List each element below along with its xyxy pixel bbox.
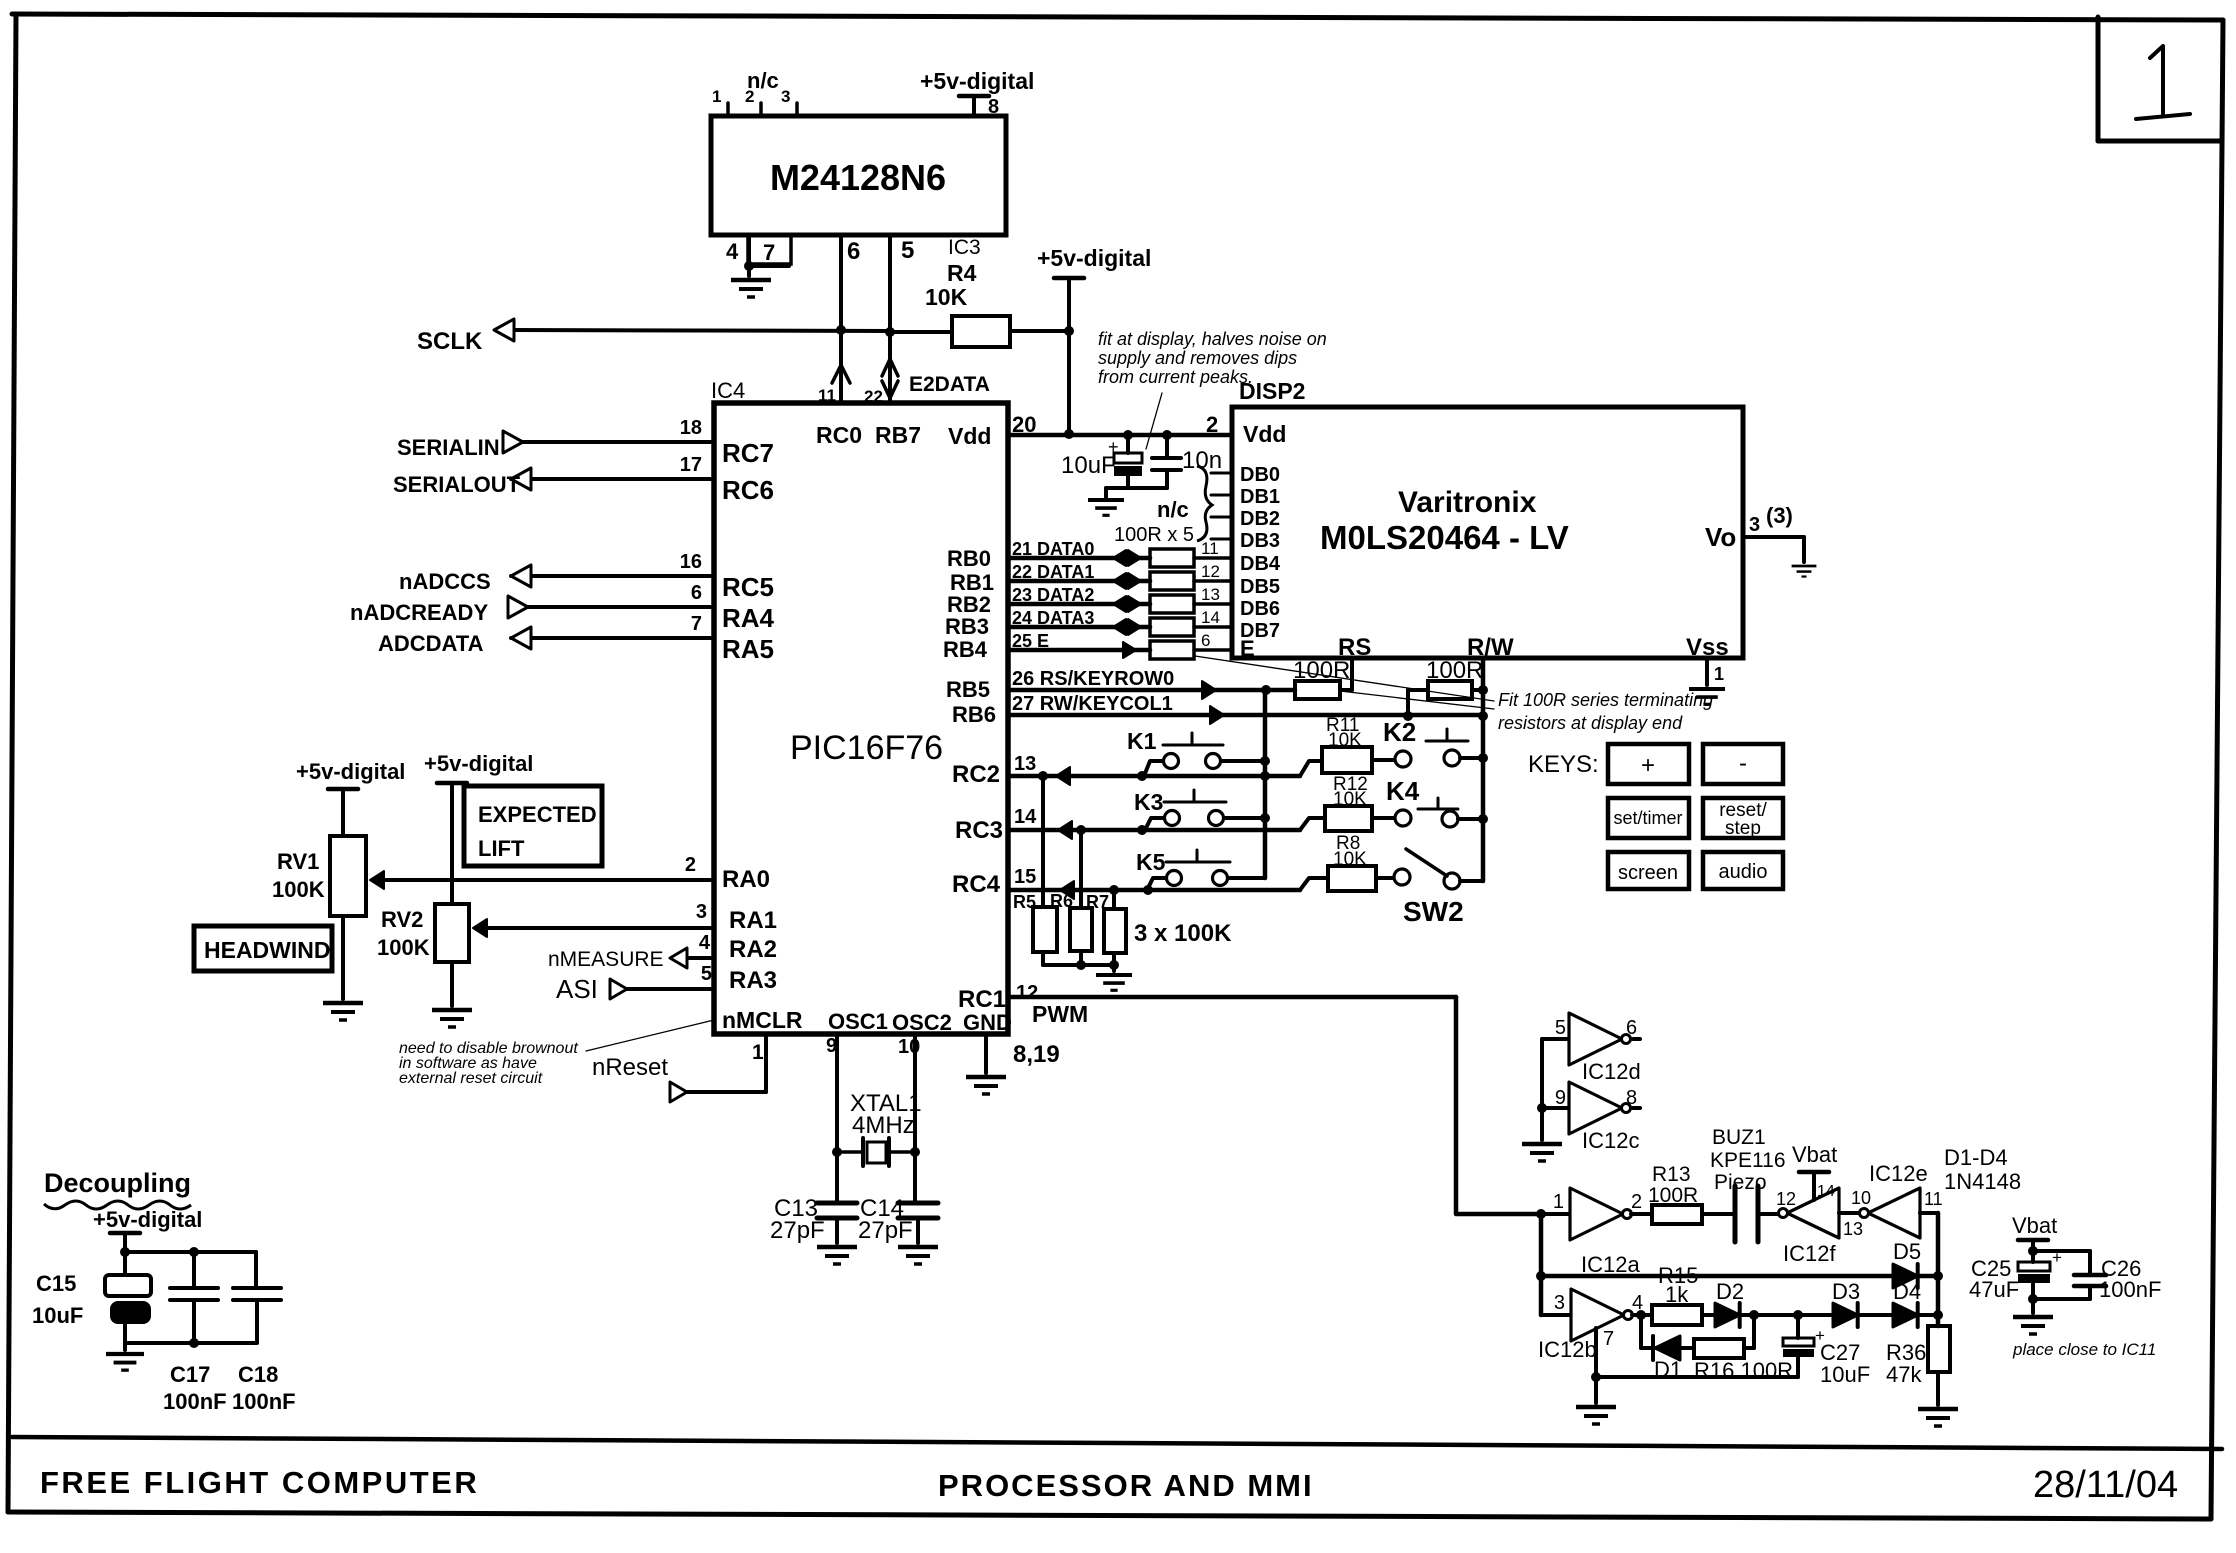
svg-text:2: 2	[1631, 1191, 1642, 1213]
svg-text:100nF: 100nF	[163, 1389, 227, 1414]
svg-text:RA0: RA0	[722, 866, 770, 893]
svg-text:13: 13	[1843, 1219, 1863, 1239]
svg-text:n/c: n/c	[1157, 497, 1189, 522]
svg-text:RC2: RC2	[952, 761, 1000, 788]
svg-text:+: +	[2052, 1248, 2062, 1267]
svg-text:nADCCS: nADCCS	[399, 569, 491, 594]
svg-text:47uF: 47uF	[1969, 1277, 2019, 1302]
svg-text:RV1: RV1	[277, 849, 319, 874]
svg-text:10K: 10K	[925, 284, 968, 310]
svg-text:DB2: DB2	[1240, 508, 1280, 530]
svg-text:8: 8	[988, 96, 999, 118]
svg-text:screen: screen	[1618, 862, 1678, 884]
svg-text:100R: 100R	[1426, 657, 1483, 684]
svg-text:K3: K3	[1134, 789, 1163, 815]
svg-text:OSC2: OSC2	[892, 1010, 952, 1035]
svg-text:PROCESSOR AND MMI: PROCESSOR AND MMI	[938, 1468, 1314, 1503]
svg-text:11: 11	[1201, 539, 1219, 558]
svg-text:C15: C15	[36, 1271, 76, 1296]
svg-text:RB3: RB3	[945, 614, 989, 639]
svg-text:Decoupling: Decoupling	[44, 1168, 191, 1198]
svg-text:23 DATA2: 23 DATA2	[1012, 585, 1094, 605]
svg-text:KEYS:: KEYS:	[1528, 751, 1599, 778]
svg-text:RA4: RA4	[722, 603, 775, 633]
svg-text:external reset circuit: external reset circuit	[399, 1070, 543, 1087]
svg-text:4: 4	[726, 239, 739, 264]
svg-text:10: 10	[898, 1036, 920, 1058]
svg-text:HEADWIND: HEADWIND	[204, 937, 331, 963]
svg-text:18: 18	[680, 417, 702, 439]
svg-text:5: 5	[901, 237, 914, 264]
svg-text:10K: 10K	[1333, 789, 1367, 810]
svg-text:GND: GND	[963, 1010, 1012, 1035]
svg-text:nMEASURE: nMEASURE	[548, 948, 664, 971]
svg-text:15: 15	[1014, 866, 1036, 888]
svg-text:100R: 100R	[1293, 657, 1350, 684]
svg-text:11: 11	[1924, 1189, 1943, 1209]
svg-text:100K: 100K	[377, 935, 430, 960]
svg-text:IC4: IC4	[711, 378, 745, 403]
svg-text:C17: C17	[170, 1362, 210, 1387]
svg-text:SERIALOUT: SERIALOUT	[393, 472, 521, 497]
svg-text:27pF: 27pF	[770, 1217, 825, 1244]
svg-text:1: 1	[1714, 664, 1724, 684]
svg-text:-: -	[1739, 750, 1747, 777]
svg-text:Vbat: Vbat	[1792, 1142, 1837, 1167]
svg-text:3: 3	[696, 901, 707, 923]
svg-text:7: 7	[1603, 1328, 1614, 1350]
svg-text:DISP2: DISP2	[1239, 378, 1305, 404]
svg-text:Piezo: Piezo	[1714, 1171, 1767, 1194]
svg-text:E: E	[1240, 636, 1255, 661]
svg-text:RA2: RA2	[729, 936, 777, 963]
svg-text:K4: K4	[1386, 776, 1420, 806]
svg-text:+: +	[1641, 752, 1655, 779]
svg-text:Vo: Vo	[1705, 522, 1736, 552]
svg-text:6: 6	[691, 582, 702, 604]
svg-text:RC6: RC6	[722, 475, 774, 505]
svg-text:10K: 10K	[1333, 849, 1367, 870]
svg-text:audio: audio	[1719, 861, 1768, 883]
svg-text:10K: 10K	[1328, 730, 1362, 751]
svg-text:9: 9	[1555, 1087, 1566, 1109]
svg-text:IC3: IC3	[948, 236, 981, 259]
svg-text:DB5: DB5	[1240, 576, 1280, 598]
svg-text:2: 2	[685, 854, 696, 876]
svg-text:+5v-digital: +5v-digital	[1037, 245, 1151, 271]
svg-text:LIFT: LIFT	[478, 836, 525, 861]
svg-text:14: 14	[1014, 806, 1037, 828]
svg-text:7: 7	[691, 613, 702, 635]
svg-text:K2: K2	[1383, 717, 1416, 747]
svg-text:R6: R6	[1050, 891, 1073, 911]
svg-text:RV2: RV2	[381, 907, 423, 932]
svg-text:BUZ1: BUZ1	[1712, 1126, 1766, 1149]
svg-text:13: 13	[1014, 753, 1036, 775]
svg-text:5: 5	[701, 963, 712, 985]
svg-text:D4: D4	[1893, 1279, 1921, 1304]
svg-text:+5v-digital: +5v-digital	[93, 1207, 202, 1232]
svg-text:27 RW/KEYCOL1: 27 RW/KEYCOL1	[1012, 693, 1173, 715]
svg-text:E2DATA: E2DATA	[909, 373, 990, 396]
svg-text:10: 10	[1851, 1188, 1871, 1208]
svg-text:16: 16	[680, 551, 702, 573]
svg-text:RC1: RC1	[958, 986, 1006, 1013]
svg-text:R5: R5	[1013, 892, 1036, 912]
svg-text:24 DATA3: 24 DATA3	[1012, 608, 1094, 628]
svg-text:place close to IC11: place close to IC11	[2012, 1340, 2156, 1359]
svg-text:12: 12	[1201, 562, 1220, 581]
svg-text:100R: 100R	[1648, 1184, 1698, 1207]
svg-text:17: 17	[680, 454, 702, 476]
svg-text:IC12b: IC12b	[1538, 1337, 1597, 1362]
svg-text:DB4: DB4	[1240, 553, 1281, 575]
svg-text:Fit 100R series terminating: Fit 100R series terminating	[1498, 690, 1713, 710]
svg-text:+5v-digital: +5v-digital	[920, 68, 1034, 94]
svg-text:RA3: RA3	[729, 967, 777, 994]
svg-text:M0LS20464 - LV: M0LS20464 - LV	[1320, 519, 1569, 556]
svg-text:26 RS/KEYROW0: 26 RS/KEYROW0	[1012, 668, 1174, 690]
svg-text:12: 12	[1776, 1189, 1796, 1209]
svg-text:DB6: DB6	[1240, 598, 1280, 620]
svg-text:DB3: DB3	[1240, 530, 1280, 552]
svg-text:10uF: 10uF	[1061, 452, 1116, 479]
svg-text:RA5: RA5	[722, 634, 774, 664]
svg-text:1: 1	[1553, 1191, 1564, 1213]
svg-text:R4: R4	[947, 260, 977, 286]
svg-text:100R x 5: 100R x 5	[1114, 524, 1194, 546]
svg-text:IC12e: IC12e	[1869, 1161, 1928, 1186]
svg-text:SERIALIN: SERIALIN	[397, 435, 500, 460]
svg-text:RC4: RC4	[952, 871, 1001, 898]
svg-text:DB1: DB1	[1240, 486, 1280, 508]
svg-text:n/c: n/c	[747, 68, 779, 93]
svg-text:10uF: 10uF	[32, 1303, 83, 1328]
svg-text:fit at display, halves noise o: fit at display, halves noise on	[1098, 329, 1327, 349]
svg-text:14: 14	[1817, 1183, 1835, 1200]
svg-text:resistors at display end: resistors at display end	[1498, 713, 1683, 733]
svg-text:ADCDATA: ADCDATA	[378, 631, 484, 656]
svg-text:nReset: nReset	[592, 1054, 668, 1081]
svg-text:21 DATA0: 21 DATA0	[1012, 539, 1094, 559]
svg-text:D2: D2	[1716, 1279, 1744, 1304]
svg-text:SCLK: SCLK	[417, 328, 483, 355]
svg-text:RC0: RC0	[816, 422, 862, 448]
svg-text:Varitronix: Varitronix	[1398, 486, 1537, 519]
svg-text:1k: 1k	[1665, 1282, 1689, 1307]
svg-text:47k: 47k	[1886, 1362, 1922, 1387]
svg-text:step: step	[1725, 818, 1761, 839]
svg-text:(3): (3)	[1766, 503, 1793, 528]
svg-text:nADCREADY: nADCREADY	[350, 600, 488, 625]
svg-text:R7: R7	[1086, 892, 1109, 912]
svg-text:K1: K1	[1127, 728, 1157, 754]
svg-text:KPE116: KPE116	[1710, 1149, 1786, 1172]
svg-text:14: 14	[1201, 608, 1220, 627]
svg-text:RB4: RB4	[943, 637, 988, 662]
svg-text:supply and removes dips: supply and removes dips	[1098, 348, 1297, 368]
svg-text:25 E: 25 E	[1012, 631, 1049, 651]
svg-text:RS: RS	[1338, 634, 1371, 661]
svg-text:10uF: 10uF	[1820, 1362, 1870, 1387]
svg-text:3 x 100K: 3 x 100K	[1134, 920, 1232, 947]
svg-text:RB0: RB0	[947, 546, 991, 571]
svg-text:13: 13	[1201, 585, 1220, 604]
svg-text:100K: 100K	[272, 877, 325, 902]
svg-text:DB0: DB0	[1240, 464, 1280, 486]
svg-text:100nF: 100nF	[2099, 1277, 2161, 1302]
svg-text:OSC1: OSC1	[828, 1009, 888, 1034]
svg-text:6: 6	[1201, 631, 1210, 650]
svg-text:3: 3	[781, 87, 790, 106]
svg-text:1N4148: 1N4148	[1944, 1169, 2021, 1194]
svg-text:5: 5	[1555, 1017, 1566, 1039]
svg-text:3: 3	[1749, 514, 1760, 536]
svg-text:R13: R13	[1652, 1163, 1691, 1186]
svg-text:D1-D4: D1-D4	[1944, 1145, 2008, 1170]
svg-text:+5v-digital: +5v-digital	[424, 751, 533, 776]
svg-text:4: 4	[699, 932, 711, 954]
svg-text:8: 8	[1626, 1087, 1637, 1109]
svg-text:3: 3	[1554, 1292, 1565, 1314]
svg-text:IC12d: IC12d	[1582, 1059, 1641, 1084]
svg-text:FREE FLIGHT COMPUTER: FREE FLIGHT COMPUTER	[40, 1465, 479, 1500]
svg-text:4MHz: 4MHz	[852, 1112, 915, 1139]
svg-text:6: 6	[1626, 1017, 1637, 1039]
svg-text:1: 1	[712, 87, 721, 106]
svg-text:28/11/04: 28/11/04	[2033, 1464, 2178, 1506]
svg-text:+5v-digital: +5v-digital	[296, 759, 405, 784]
svg-text:K5: K5	[1136, 849, 1166, 875]
svg-text:C18: C18	[238, 1362, 278, 1387]
svg-text:27pF: 27pF	[858, 1217, 913, 1244]
svg-text:RB6: RB6	[952, 702, 996, 727]
svg-text:IC12c: IC12c	[1582, 1128, 1639, 1153]
svg-text:M24128N6: M24128N6	[770, 157, 946, 198]
svg-text:RC7: RC7	[722, 438, 774, 468]
svg-text:1: 1	[752, 1041, 764, 1064]
svg-text:9: 9	[826, 1035, 837, 1057]
svg-text:SW2: SW2	[1403, 896, 1464, 927]
svg-text:6: 6	[847, 238, 860, 265]
svg-text:2: 2	[1206, 412, 1218, 437]
svg-text:D3: D3	[1832, 1279, 1860, 1304]
svg-text:set/timer: set/timer	[1613, 808, 1682, 828]
svg-text:IC12f: IC12f	[1783, 1241, 1836, 1266]
svg-text:RC3: RC3	[955, 817, 1003, 844]
svg-text:R/W: R/W	[1467, 634, 1514, 661]
svg-text:100nF: 100nF	[232, 1389, 296, 1414]
svg-text:ASI: ASI	[556, 974, 598, 1004]
svg-text:7: 7	[763, 240, 775, 265]
svg-text:R16 100R: R16 100R	[1694, 1358, 1793, 1383]
svg-text:RB7: RB7	[875, 422, 921, 448]
svg-text:Vbat: Vbat	[2012, 1213, 2057, 1238]
svg-text:PIC16F76: PIC16F76	[790, 729, 943, 767]
svg-text:from current peaks.: from current peaks.	[1098, 367, 1253, 387]
svg-text:EXPECTED: EXPECTED	[478, 802, 597, 827]
svg-text:RC5: RC5	[722, 572, 774, 602]
svg-text:D5: D5	[1893, 1239, 1921, 1264]
svg-text:Vdd: Vdd	[948, 423, 991, 449]
svg-text:PWM: PWM	[1032, 1001, 1088, 1027]
svg-text:Vdd: Vdd	[1243, 421, 1286, 447]
svg-text:nMCLR: nMCLR	[722, 1007, 803, 1033]
svg-text:RA1: RA1	[729, 907, 777, 934]
svg-text:22 DATA1: 22 DATA1	[1012, 562, 1094, 582]
svg-text:IC12a: IC12a	[1581, 1252, 1640, 1277]
svg-text:8,19: 8,19	[1013, 1041, 1060, 1068]
svg-text:RB5: RB5	[946, 677, 990, 702]
